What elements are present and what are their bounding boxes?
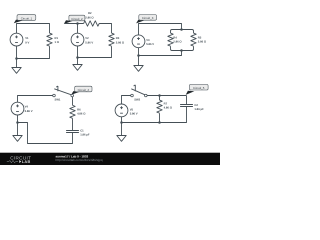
svg-text:Circuit_5: Circuit_5	[193, 86, 205, 90]
svg-text:Circuit_4: Circuit_4	[78, 88, 90, 92]
voltage source V5	[115, 104, 138, 117]
resistor R6	[70, 105, 86, 118]
svg-text:3.86 Ω: 3.86 Ω	[198, 41, 207, 44]
resistor R3	[109, 33, 125, 46]
voltage source V1	[10, 33, 29, 46]
svg-text:Circuit_2: Circuit_2	[71, 17, 83, 21]
switch SW2	[131, 85, 147, 102]
junction dot c5 R7 bottom	[158, 121, 161, 124]
wire V2 stem	[77, 24, 79, 34]
ground c2	[73, 58, 82, 71]
wire bottom rail c2	[78, 46, 112, 58]
junction dot c4	[16, 121, 19, 124]
svg-text:V3: V3	[146, 39, 150, 42]
svg-text:4.86 Ω: 4.86 Ω	[77, 113, 86, 116]
node flag Circuit_4	[71, 86, 92, 95]
wire bottom rail c5	[122, 107, 187, 123]
resistor R1	[47, 33, 60, 46]
wire bottom rail c3	[139, 48, 182, 56]
svg-text:2.86 Ω: 2.86 Ω	[173, 41, 182, 44]
svg-text:SW1: SW1	[55, 99, 61, 102]
junction dot c5 R7 top	[158, 94, 161, 97]
ground c3	[134, 56, 143, 72]
wire top rail c1	[17, 24, 50, 34]
svg-text:5.86 V: 5.86 V	[130, 113, 138, 116]
voltage source V4	[11, 102, 33, 115]
svg-text:R4: R4	[173, 36, 177, 39]
svg-text:9 V: 9 V	[25, 41, 29, 44]
svg-text:C2: C2	[194, 104, 198, 107]
wire top rail c2	[65, 24, 112, 34]
svg-text:R2: R2	[88, 12, 92, 15]
junction dot c3 bottom rail	[180, 49, 183, 52]
svg-text:1 Ω: 1 Ω	[55, 41, 60, 44]
wire switch to R6	[72, 97, 74, 106]
svg-text:3.86 Ω: 3.86 Ω	[116, 41, 125, 44]
ground c5	[117, 123, 126, 142]
wire C1 bottom to return	[18, 123, 73, 144]
wire parallel top rail	[171, 30, 194, 34]
svg-text:R6: R6	[77, 108, 81, 111]
junction dot c3 v3	[137, 54, 140, 57]
junction dot c3 top	[180, 28, 183, 31]
svg-text:1.86 µF: 1.86 µF	[194, 108, 204, 111]
svg-text:V1: V1	[25, 37, 29, 40]
node flag Circuit_5	[186, 84, 208, 95]
resistor R2	[84, 12, 100, 26]
wire R7 stem top	[159, 96, 161, 101]
voltage source V3	[132, 35, 154, 48]
svg-text:R7: R7	[164, 102, 168, 105]
node flag Circuit_1	[14, 15, 36, 24]
junction dot c1	[15, 57, 18, 60]
svg-text:R5: R5	[198, 36, 202, 39]
resistor R4	[168, 33, 183, 46]
svg-text:V4: V4	[25, 106, 29, 109]
wire R7 bottom	[159, 113, 161, 122]
wire top rail c3	[139, 24, 182, 35]
junction dot c5 v5	[120, 121, 123, 124]
wire V4 bottom	[17, 115, 19, 123]
wire switch to C2 branch	[147, 95, 186, 97]
svg-text:SW2: SW2	[134, 99, 140, 102]
svg-text:C1: C1	[80, 130, 84, 133]
svg-text:LAB: LAB	[22, 160, 31, 164]
svg-text:5.86 V: 5.86 V	[146, 43, 154, 46]
wire R6 to C1	[72, 118, 74, 130]
wire bottom rail c1	[17, 46, 50, 59]
svg-text:Circuit_3: Circuit_3	[142, 16, 154, 20]
CircuitLab logo	[7, 155, 31, 164]
resistor R5	[191, 33, 207, 46]
ground c4	[13, 123, 22, 142]
svg-text:http://circuitlab.com/c/dxrs32: http://circuitlab.com/c/dxrs32b2ejpq	[56, 158, 103, 162]
capacitor C2	[180, 104, 204, 111]
wire parallel bottom rail	[171, 46, 194, 50]
svg-text:4.86 Ω: 4.86 Ω	[164, 107, 173, 110]
wire C2 stem top	[186, 96, 188, 105]
svg-text:Circuit_1: Circuit_1	[21, 16, 33, 20]
junction dot c2 top	[76, 22, 79, 25]
svg-text:V5: V5	[130, 108, 134, 111]
junction dot c2 bottom	[76, 56, 79, 59]
switch SW1	[53, 86, 74, 102]
wire top rail c4	[18, 96, 53, 103]
capacitor C1	[66, 130, 90, 137]
wire top rail c5	[122, 96, 131, 105]
svg-text:V2: V2	[85, 37, 89, 40]
svg-text:R3: R3	[116, 37, 120, 40]
node flag Circuit_3	[136, 15, 156, 24]
svg-text:2.86 Ω: 2.86 Ω	[85, 16, 94, 19]
ground c1	[12, 59, 21, 74]
svg-text:R1: R1	[55, 37, 59, 40]
svg-text:1.86 µF: 1.86 µF	[80, 134, 90, 137]
node flag Circuit_2	[64, 15, 85, 24]
svg-text:5.86 V: 5.86 V	[85, 41, 93, 44]
resistor R7	[157, 100, 173, 113]
voltage source V2	[71, 33, 93, 46]
svg-text:5.86 V: 5.86 V	[25, 110, 33, 113]
